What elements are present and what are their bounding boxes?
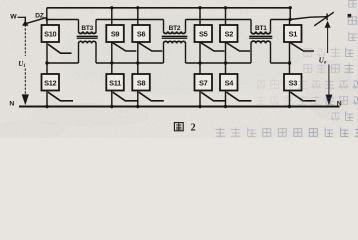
node N bus dot S11 [110, 105, 113, 108]
node N bus dot S7 [198, 105, 201, 108]
wire middle bus seg1 [47, 62, 79, 64]
wire middle bus to S8 [137, 63, 139, 74]
thyristor switch box S12 [42, 74, 60, 91]
caption figure glyph 图 [174, 123, 183, 131]
switch blade of S7 [201, 92, 226, 101]
voltage arrow Uo head up [325, 21, 331, 28]
thyristor switch box S4 [220, 74, 238, 91]
thyristor switch box S10 [42, 25, 60, 42]
thyristor switch box S2 [220, 25, 238, 42]
svg-text:BT3: BT3 [81, 25, 93, 32]
node middle bus dot S9/S11 [110, 61, 113, 64]
node N bus dot S12 [45, 105, 48, 108]
transformer BT1 secondary winding [251, 41, 271, 43]
node middle bus dot S2/S4 [224, 61, 227, 64]
voltage arrow U1 shaft upper [24, 25, 26, 57]
transformer BT2 primary risers [163, 20, 165, 32]
wire top bus [47, 7, 290, 9]
transformer BT1 secondary drops [250, 43, 252, 63]
svg-text:S4: S4 [225, 78, 235, 87]
transformer BT1 primary risers [250, 20, 252, 32]
wire S6 to middle bus [137, 42, 139, 63]
switch blade of S1 [291, 43, 315, 51]
switch blade of S3 [291, 92, 316, 101]
switch DZ fixed contact bar [24, 17, 26, 22]
wire N bus [19, 106, 340, 108]
wire S1 top stub [289, 20, 291, 26]
switch DZ blade [26, 17, 47, 23]
wire middle bus seg4 [271, 62, 290, 64]
node top-bus junction above S9 [110, 6, 113, 9]
wire top-bus output drop [289, 8, 291, 20]
svg-text:BT1: BT1 [255, 25, 267, 32]
voltage arrow U1 shaft lower [24, 69, 26, 96]
thyristor switch box S11 [106, 74, 124, 91]
switch K blade [314, 12, 334, 26]
switch blade of S5 [201, 43, 225, 51]
wire series line seg3 [186, 19, 252, 21]
wire S2 drop from top bus [225, 8, 227, 25]
wire middle bus seg2 [96, 62, 164, 64]
thyristor switch box S6 [132, 25, 150, 42]
transformer BT3 secondary drops [78, 43, 80, 63]
wire S9 to middle bus [111, 42, 113, 63]
thyristor switch box S1 [284, 25, 302, 42]
wire DZ riser [46, 8, 48, 20]
voltage arrow U1 head up [22, 20, 28, 26]
transformer BT1 core [249, 35, 272, 37]
node top-bus junction above S5 [198, 6, 201, 9]
thyristor switch box S3 [284, 74, 302, 91]
wire S3 to N bus [289, 91, 291, 107]
node N bus dot S3 [288, 105, 291, 108]
switch blade of S2 [227, 43, 251, 51]
wire S9 drop from top bus [111, 8, 113, 25]
switch blade of S9 [113, 43, 137, 51]
wire middle bus to S12 [46, 63, 48, 74]
svg-text:BT2: BT2 [169, 25, 181, 32]
transformer BT2 core [162, 35, 188, 37]
wire S7 to N bus [199, 91, 201, 107]
voltage arrow Uo shaft lower [328, 65, 330, 96]
wire middle bus to S11 [111, 63, 113, 74]
node N bus dot S8 [136, 105, 139, 108]
transformer BT2 primary winding [164, 31, 186, 33]
transformer BT2 secondary drops [163, 43, 165, 63]
wire S6 drop from top bus [137, 8, 139, 25]
voltage arrow Uo shaft upper [327, 27, 329, 54]
wire S1 to middle bus [289, 42, 291, 63]
wire middle bus seg3 [186, 62, 252, 64]
transformer BT3 core [77, 35, 98, 37]
wire S11 to N bus [111, 91, 113, 107]
svg-text:S2: S2 [225, 29, 234, 38]
thyristor switch box S7 [195, 74, 213, 91]
node N bus dot S4 [224, 105, 227, 108]
node top-bus corner dot [289, 6, 292, 9]
svg-text:N: N [9, 101, 14, 108]
thyristor switch box S9 [106, 25, 124, 42]
wire middle bus to S3 [289, 63, 291, 74]
switch blade of S12 [48, 92, 73, 101]
switch blade of S6 [139, 43, 163, 51]
terminal w square [348, 14, 352, 18]
paper background [0, 0, 358, 138]
transformer BT3 secondary winding [79, 41, 97, 43]
transformer BT3 primary winding [79, 31, 97, 33]
wire middle bus to S4 [225, 63, 227, 74]
node S10 feed dot [46, 18, 49, 21]
transformer BT1 primary winding [251, 31, 271, 33]
wire S5 to middle bus [199, 42, 201, 63]
svg-text:W: W [10, 14, 17, 21]
switch K fixed contact bar [326, 14, 328, 21]
node top-bus junction above S2 [224, 6, 227, 9]
voltage arrow Uo head down [326, 95, 333, 106]
node output junction dot [289, 18, 292, 21]
node middle bus dot S5/S7 [198, 61, 201, 64]
switch blade of S11 [113, 92, 138, 101]
wire series line seg1 [47, 19, 79, 21]
wire S10 top stub [46, 20, 48, 26]
transformer BT2 secondary winding [164, 41, 186, 43]
thyristor switch box S5 [195, 25, 213, 42]
node top-bus junction above S6 [136, 6, 139, 9]
wire S5 drop from top bus [199, 8, 201, 25]
wire series line seg2 [96, 19, 164, 21]
svg-text:S7: S7 [199, 78, 208, 87]
wire S8 to N bus [137, 91, 139, 107]
thyristor switch box S8 [132, 74, 150, 91]
wire output line to bypass switch [290, 17, 327, 20]
switch blade of S8 [139, 92, 164, 101]
transformer BT3 primary risers [78, 20, 80, 32]
svg-text:2: 2 [191, 123, 196, 134]
svg-text:S10: S10 [44, 29, 56, 38]
node middle bus dot S1/S3 [288, 61, 291, 64]
svg-text:S8: S8 [137, 78, 146, 87]
wire S2 to middle bus [225, 42, 227, 63]
wire middle bus to S7 [199, 63, 201, 74]
svg-text:S9: S9 [111, 29, 120, 38]
svg-text:S11: S11 [109, 78, 121, 87]
voltage arrow U1 head down [22, 94, 29, 105]
svg-text:S3: S3 [289, 78, 298, 87]
switch blade of S10 [48, 44, 72, 53]
wire S4 to N bus [225, 91, 227, 107]
wire S12 to N bus [46, 91, 48, 107]
wire S10 to middle bus [46, 42, 48, 63]
node middle bus dot S10/S12 [45, 61, 48, 64]
svg-text:S1: S1 [289, 29, 298, 38]
switch blade of S4 [227, 92, 252, 101]
wire series line seg4 [271, 19, 291, 21]
svg-text:S5: S5 [199, 29, 208, 38]
svg-text:DZ: DZ [35, 13, 44, 20]
svg-text:S12: S12 [44, 78, 56, 87]
node middle bus dot S6/S8 [136, 61, 139, 64]
svg-text:S6: S6 [137, 29, 146, 38]
wire W terminal lead [18, 16, 25, 18]
